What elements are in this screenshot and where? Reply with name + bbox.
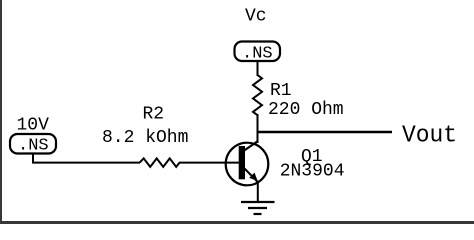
wire (collector node to Vout)	[258, 131, 393, 133]
wire (10V box stem)	[33, 154, 140, 163]
transistor Q1	[226, 141, 269, 185]
svg-text:.NS: .NS	[18, 137, 49, 156]
wire (Vc box to R1)	[257, 61, 259, 76]
svg-text:8.2 kOhm: 8.2 kOhm	[102, 128, 188, 148]
svg-text:10V: 10V	[17, 116, 50, 136]
resistor R1	[253, 75, 262, 115]
net-label box .NS (10V)	[10, 134, 56, 156]
svg-text:.NS: .NS	[242, 45, 273, 64]
wire (Q1 emitter to ground)	[257, 183, 259, 202]
ground	[241, 202, 275, 214]
svg-text:2N3904: 2N3904	[280, 162, 345, 182]
net-label box .NS (Vc)	[235, 42, 281, 64]
wire (R1 to Q1 collector)	[257, 114, 259, 143]
wire (R2 to Q1 base)	[179, 162, 240, 164]
svg-text:R2: R2	[143, 105, 165, 125]
svg-text:Vout: Vout	[402, 123, 457, 150]
svg-text:R1: R1	[270, 81, 292, 101]
resistor R2	[140, 158, 180, 167]
svg-text:Vc: Vc	[245, 7, 267, 27]
svg-text:220 Ohm: 220 Ohm	[268, 100, 344, 120]
